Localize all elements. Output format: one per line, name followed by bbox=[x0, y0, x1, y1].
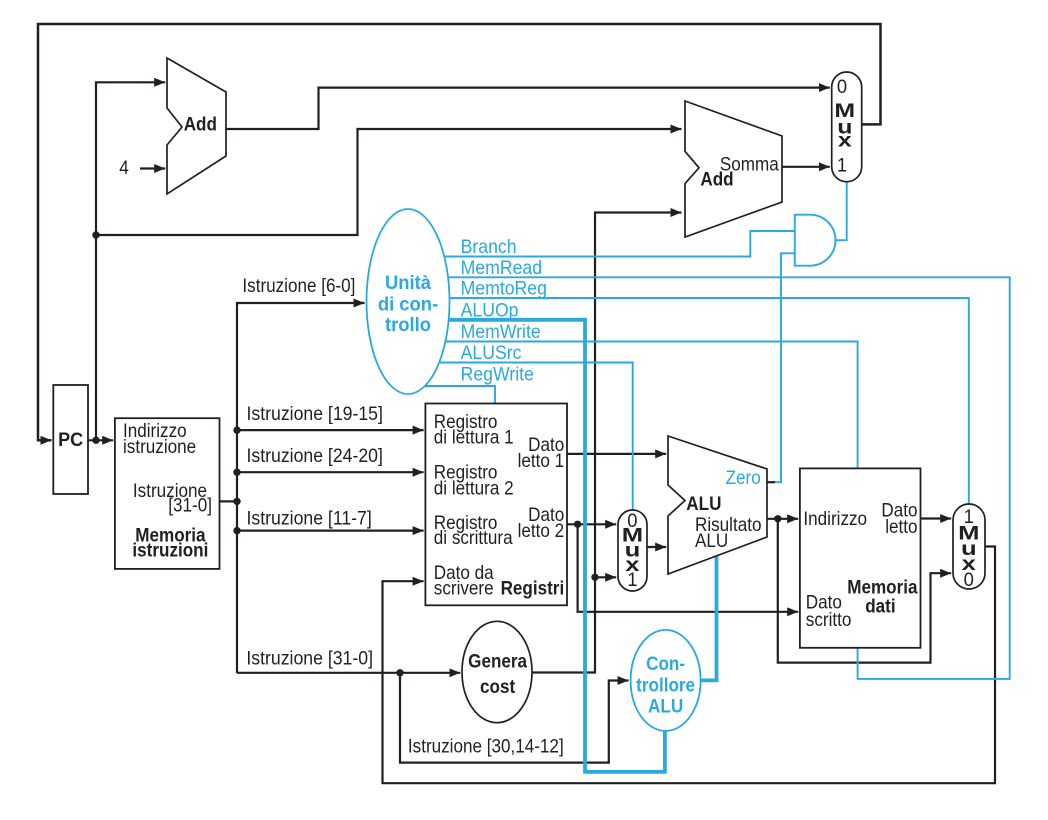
svg-text:scrivere: scrivere bbox=[434, 578, 494, 599]
wire: MemRead control to data memory bottom bbox=[448, 277, 1010, 679]
wire: ALUOp control (thick) down to ALU control unit bbox=[449, 320, 665, 772]
wire: Istruzione [19-15] to read register 1 bbox=[237, 429, 424, 431]
svg-text:ALUOp: ALUOp bbox=[461, 299, 519, 321]
svg-text:Istruzione [30,14-12]: Istruzione [30,14-12] bbox=[408, 736, 564, 757]
junction dot: imm riser to ALUSrc mux bbox=[591, 574, 598, 581]
AND gate (branch AND zero) bbox=[795, 215, 836, 266]
ALU control ellipse (Controllore ALU) bbox=[631, 630, 701, 731]
svg-text:[31-0]: [31-0] bbox=[168, 494, 212, 515]
mux PCSrc (top right) bbox=[832, 72, 862, 182]
mux MemtoReg bbox=[953, 504, 985, 590]
wire: PCSrc mux output feedback over the top into PC bbox=[38, 24, 881, 440]
immediate generator ellipse (Genera cost) bbox=[462, 621, 532, 722]
svg-text:Memoria: Memoria bbox=[847, 577, 918, 598]
registers block (Registri) bbox=[425, 404, 567, 606]
svg-text:Unità: Unità bbox=[385, 272, 432, 293]
junction dot: PC to Somma tap bbox=[92, 231, 99, 238]
wire: ALU result down and around to MemtoReg mux input 0 bbox=[778, 519, 951, 663]
svg-text:Istruzione [31-0]: Istruzione [31-0] bbox=[246, 647, 373, 669]
svg-text:di scrittura: di scrittura bbox=[434, 527, 514, 548]
wire: Dato letto 2 to ALUSrc mux input 0 bbox=[567, 523, 616, 525]
adder Somma / Add (branch target) bbox=[685, 101, 782, 237]
svg-text:di lettura 1: di lettura 1 bbox=[434, 426, 514, 447]
svg-text:Istruzione [19-15]: Istruzione [19-15] bbox=[247, 402, 383, 424]
junction dot: bus tap 11-7 bbox=[233, 527, 240, 534]
wire: immediate branch to ALUSrc mux input 1 bbox=[595, 576, 616, 578]
wire: PC value across to branch adder (Somma) top input bbox=[96, 129, 682, 235]
svg-text:4: 4 bbox=[119, 157, 129, 178]
wire: immediate riser up to Somma lower input bbox=[595, 213, 682, 673]
svg-text:istruzioni: istruzioni bbox=[132, 540, 208, 561]
svg-text:Branch: Branch bbox=[461, 235, 517, 257]
svg-text:Add: Add bbox=[700, 169, 733, 190]
wire: Genera cost output bbox=[532, 671, 596, 673]
wire: Zero flag up to AND gate lower input bbox=[775, 253, 794, 482]
svg-text:trollo: trollo bbox=[385, 314, 431, 335]
svg-text:x: x bbox=[838, 129, 853, 150]
svg-text:ALU: ALU bbox=[686, 493, 721, 514]
junction dot: ALU result branch bbox=[774, 515, 781, 522]
instruction field labels bbox=[242, 275, 563, 757]
svg-text:letto: letto bbox=[885, 516, 917, 537]
junction dot: bus tap instruction out bbox=[233, 498, 240, 505]
svg-text:letto 1: letto 1 bbox=[518, 450, 565, 471]
svg-text:Con-: Con- bbox=[646, 653, 685, 674]
control signal labels bbox=[461, 235, 547, 384]
mux ALUSrc bbox=[618, 510, 647, 591]
svg-text:di con-: di con- bbox=[378, 293, 438, 314]
svg-text:Istruzione [6-0]: Istruzione [6-0] bbox=[242, 275, 355, 296]
wire: PC output to instruction memory bbox=[88, 439, 113, 441]
wire: Istruzione [11-7] to write register bbox=[237, 529, 424, 531]
junction dot: PC out bbox=[92, 437, 99, 444]
wire: MemWrite control to data memory top bbox=[445, 342, 857, 470]
junction dot: dato letto 2 branch bbox=[574, 521, 581, 528]
control unit ellipse (Unità di controllo) bbox=[367, 209, 450, 394]
ALU bbox=[668, 436, 767, 574]
wire: PC output riser up to Add (PC+4) top input bbox=[96, 82, 165, 440]
svg-text:cost: cost bbox=[480, 676, 515, 697]
wire: Somma output to PCSrc mux input 1 bbox=[782, 166, 830, 168]
svg-text:ALU: ALU bbox=[695, 530, 728, 551]
adder Add (PC+4) bbox=[167, 58, 226, 194]
wire: ALU result to data memory address bbox=[767, 518, 798, 520]
svg-text:1: 1 bbox=[837, 154, 847, 175]
register PC bbox=[53, 385, 88, 494]
wire: Branch control to AND gate top input bbox=[444, 231, 794, 257]
svg-text:Istruzione [11-7]: Istruzione [11-7] bbox=[247, 507, 372, 529]
svg-text:ALU: ALU bbox=[648, 696, 683, 717]
svg-text:Zero: Zero bbox=[726, 467, 761, 488]
wire: instruction bus vertical with tap to control unit (Istruzione [6-0]) bbox=[237, 303, 365, 673]
svg-text:Genera: Genera bbox=[468, 651, 528, 672]
junction dot: bus tap 24-20 bbox=[233, 469, 240, 476]
svg-text:MemWrite: MemWrite bbox=[461, 320, 541, 342]
wire: RegWrite control to registers bbox=[425, 386, 495, 404]
svg-text:Registri: Registri bbox=[501, 578, 565, 599]
svg-text:MemRead: MemRead bbox=[461, 256, 542, 278]
svg-text:Indirizzo: Indirizzo bbox=[803, 508, 867, 529]
wire: constant 4 into Add lower input bbox=[140, 167, 165, 169]
instruction memory (Memoria istruzioni) bbox=[115, 418, 220, 569]
svg-text:letto 2: letto 2 bbox=[518, 520, 565, 541]
wire: data memory Dato letto to MemtoReg mux input 1 bbox=[921, 517, 952, 519]
wire: AND gate output to PCSrc mux select bbox=[836, 183, 847, 241]
wire: Zero output stub bbox=[767, 481, 775, 483]
wire: Istruzione [30,14-12] funct path into ALU control bbox=[400, 673, 629, 763]
junction dot: bus tap 19-15 bbox=[233, 426, 240, 433]
wire: Istruzione [31-0] into Genera cost bbox=[237, 672, 460, 674]
wire: writeback from MemtoReg mux to Dato da scrivere bbox=[383, 547, 996, 784]
svg-text:Add: Add bbox=[184, 114, 217, 135]
wire: MemtoReg control to mux select bbox=[450, 298, 969, 505]
svg-text:RegWrite: RegWrite bbox=[461, 363, 534, 385]
svg-text:PC: PC bbox=[58, 429, 83, 451]
svg-text:MemtoReg: MemtoReg bbox=[461, 277, 547, 299]
wire: Add (PC+4) output to PCSrc mux input 0 bbox=[226, 88, 830, 129]
wire: ALU control unit output (thick) to ALU bbox=[701, 555, 717, 681]
svg-text:dati: dati bbox=[865, 596, 895, 617]
svg-text:trollore: trollore bbox=[636, 675, 695, 696]
svg-text:1: 1 bbox=[627, 569, 637, 590]
wire: ALUSrc mux output to ALU lower input bbox=[647, 546, 666, 548]
wire: Dato letto 1 to ALU top input bbox=[567, 453, 666, 455]
svg-text:0: 0 bbox=[964, 569, 974, 590]
data memory (Memoria dati) bbox=[800, 468, 921, 647]
svg-text:istruzione: istruzione bbox=[123, 436, 196, 457]
wire: Istruzione [24-20] to read register 2 bbox=[237, 471, 424, 473]
junction dot: bus tap imm gen bbox=[396, 669, 403, 676]
wire: ALUSrc control to mux select bbox=[439, 363, 633, 511]
svg-text:di lettura 2: di lettura 2 bbox=[434, 477, 514, 498]
wire: Dato letto 2 branch down to data memory write data bbox=[578, 524, 799, 612]
svg-text:scritto: scritto bbox=[806, 609, 852, 630]
svg-text:0: 0 bbox=[837, 76, 847, 97]
svg-text:Istruzione [24-20]: Istruzione [24-20] bbox=[247, 444, 383, 466]
svg-text:ALUSrc: ALUSrc bbox=[461, 341, 522, 363]
wire: instruction memory output stub bbox=[220, 500, 239, 502]
